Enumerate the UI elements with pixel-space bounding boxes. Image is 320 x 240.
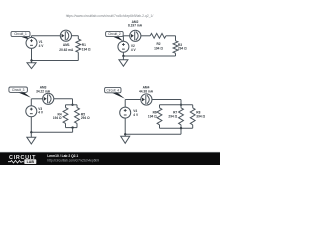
- svg-text:Circuit_4: Circuit_4: [107, 88, 120, 92]
- wire parallel bottom rail circuit 4: [160, 127, 193, 129]
- ammeter AM1: [60, 30, 71, 41]
- wire R1 bottom circuit 1: [77, 52, 79, 60]
- ground circuit 3: [30, 132, 32, 137]
- resistor R4: [65, 105, 67, 108]
- ammeter AM2: [130, 30, 141, 41]
- CircuitLab logo resistor zigzag: [8, 160, 24, 163]
- wire top rail circuit 3: [31, 98, 42, 100]
- wire parallel bottom rail circuit 3: [66, 127, 78, 129]
- svg-text:194 Ω: 194 Ω: [53, 116, 62, 120]
- node junction source-ground circuit 4: [124, 133, 126, 135]
- resistor R5: [76, 105, 78, 108]
- voltage source V2: [122, 36, 124, 41]
- svg-text:8.197 mA: 8.197 mA: [128, 24, 143, 28]
- resistor R1: [76, 39, 81, 52]
- wire ammeter to R1 corner circuit 1: [71, 35, 78, 37]
- svg-text:Lmm10 / Lab 2 Q2.1: Lmm10 / Lab 2 Q2.1: [47, 154, 78, 158]
- wire source bottom stub circuit 1: [31, 48, 33, 60]
- svg-text:https://www.circuitlab.com/cir: https://www.circuitlab.com/circuit/7nc5c…: [66, 14, 154, 18]
- node junction bottom feed circuit 4: [180, 127, 182, 129]
- wire bottom rail circuit 2: [123, 55, 175, 57]
- circuit 2 annotation tag Circuit_2: [112, 36, 123, 41]
- footer bar top hairline: [0, 151, 220, 153]
- svg-text:http://circuitlab.com/c/7nc5ch: http://circuitlab.com/c/7nc5ch4ep6b9: [47, 158, 99, 162]
- svg-text:194 Ω: 194 Ω: [148, 115, 157, 119]
- node junction top feed circuit 4: [180, 104, 182, 106]
- voltage source V1: [31, 36, 33, 38]
- wire source bottom stub circuit 3: [30, 117, 32, 133]
- wire bottom rail circuit 3: [31, 131, 72, 133]
- svg-text:LAB: LAB: [27, 160, 35, 164]
- resistor R6: [159, 105, 161, 108]
- resistor R2: [150, 33, 166, 38]
- wire bottom feed drop circuit 4: [180, 128, 182, 134]
- resistor R7: [180, 105, 182, 108]
- node junction source-ground circuit 3: [30, 131, 32, 133]
- svg-text:20.62 mA: 20.62 mA: [59, 48, 74, 52]
- svg-text:Circuit_1: Circuit_1: [14, 32, 27, 36]
- node junction top feed circuit 3: [71, 104, 73, 106]
- wire R2 to R3 corner circuit 2: [166, 35, 176, 37]
- node junction source-ground circuit 2: [122, 55, 124, 57]
- svg-text:294 Ω: 294 Ω: [168, 115, 177, 119]
- svg-text:294 Ω: 294 Ω: [178, 47, 187, 51]
- wire bottom rail circuit 4: [125, 133, 181, 135]
- svg-text:Circuit_2: Circuit_2: [108, 32, 121, 36]
- resistor R3: [173, 41, 178, 53]
- voltage source V3: [30, 99, 32, 106]
- resistor R8: [192, 105, 194, 108]
- svg-text:194 Ω: 194 Ω: [82, 47, 91, 51]
- svg-text:394 Ω: 394 Ω: [196, 115, 205, 119]
- ammeter AM3: [43, 93, 54, 104]
- ammeter AM4: [141, 94, 152, 105]
- circuit 4 annotation tag Circuit_4: [111, 92, 125, 98]
- CircuitLab logo LAB box: [24, 159, 36, 164]
- svg-text:Circuit_3: Circuit_3: [12, 88, 25, 92]
- wire ammeter to feed corner circuit 4: [152, 99, 181, 101]
- svg-text:AM1: AM1: [63, 43, 70, 47]
- svg-text:194 Ω: 194 Ω: [154, 46, 163, 50]
- svg-text:44.38 mA: 44.38 mA: [139, 89, 154, 93]
- wire parallel top rail circuit 4: [160, 104, 193, 106]
- footer black bar: [0, 153, 220, 166]
- wire top rail circuit 4: [125, 99, 141, 101]
- wire bottom rail circuit 1: [32, 60, 79, 62]
- node junction bottom feed circuit 3: [71, 126, 73, 128]
- node junction source-ground circuit 1: [30, 59, 32, 61]
- voltage source V4: [124, 100, 126, 108]
- wire source bottom stub circuit 4: [124, 118, 126, 134]
- svg-text:34.22 mA: 34.22 mA: [36, 90, 51, 94]
- wire source bottom stub circuit 2: [122, 52, 124, 56]
- wire bottom feed drop circuit 3: [72, 128, 74, 133]
- ground circuit 1: [31, 61, 33, 63]
- circuit 1 annotation tag Circuit_1: [20, 36, 32, 40]
- wire parallel top rail circuit 3: [66, 104, 78, 106]
- circuit 3 annotation tag Circuit_3: [17, 92, 31, 98]
- svg-text:R2: R2: [156, 42, 160, 46]
- svg-text:294 Ω: 294 Ω: [81, 116, 90, 120]
- wire ammeter to R2 circuit 2: [141, 35, 150, 37]
- ground circuit 4: [124, 134, 126, 136]
- wire R3 bottom circuit 2: [175, 53, 177, 56]
- wire top rail circuit 2: [123, 35, 129, 37]
- wire ammeter to feed corner circuit 3: [54, 98, 73, 100]
- wire top rail circuit 1: [32, 35, 61, 37]
- ground circuit 2: [122, 56, 124, 60]
